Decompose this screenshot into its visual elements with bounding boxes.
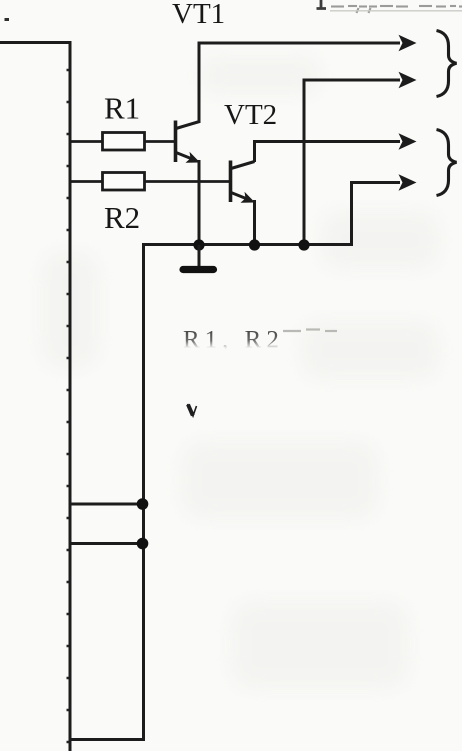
brace: outputs 3-4 xyxy=(437,130,457,196)
wire: VT2 emitter drop xyxy=(253,200,256,246)
brace: outputs 1-2 xyxy=(437,31,457,97)
junction node 3 xyxy=(298,239,309,250)
svg-text:VT2: VT2 xyxy=(224,99,277,131)
arrowhead: output 1 xyxy=(399,35,417,51)
wire: R1 left lead xyxy=(70,140,103,143)
wire: R1 to VT1 base xyxy=(145,140,177,143)
svg-text:R2: R2 xyxy=(104,200,140,235)
wire: VT2 collector riser xyxy=(253,140,256,162)
wire: output 4 riser xyxy=(350,181,353,246)
wire: VT1 collector riser xyxy=(198,42,201,123)
ground bar xyxy=(183,266,214,273)
junction node 1 xyxy=(193,239,204,250)
faded note "R1, R2" xyxy=(178,327,288,358)
wire: output 3 xyxy=(253,140,400,143)
wire: VT1 emitter drop xyxy=(198,160,201,246)
transistor VT1 xyxy=(176,121,201,163)
cropped caption fragment (top-right, faded) xyxy=(317,0,462,13)
wire: emitter bus xyxy=(144,243,354,246)
junction node 5 xyxy=(137,538,149,550)
wire: lower link 1 xyxy=(70,503,143,506)
faded note fragment "V" xyxy=(188,404,197,416)
transistor VT2 xyxy=(231,161,256,203)
arrowhead: output 2 xyxy=(399,72,417,88)
wire: second vertical (to lower stage) xyxy=(142,243,145,741)
junction node 4 xyxy=(137,498,149,510)
arrowhead: output 3 xyxy=(399,133,417,149)
junction node 2 xyxy=(249,239,260,250)
wire: output 2 xyxy=(303,79,401,82)
wire: lower link 2 xyxy=(70,542,143,545)
arrowhead: output 4 xyxy=(399,174,417,190)
wire: output 1 xyxy=(198,42,401,45)
wire: R2 left lead xyxy=(70,180,103,183)
text fragment dot (top-left) xyxy=(5,18,10,21)
resistor R2 xyxy=(103,173,145,191)
wire: R2 to VT2 base xyxy=(145,180,233,183)
svg-text:R1: R1 xyxy=(104,91,140,126)
wire: left vertical bus xyxy=(69,41,72,751)
resistor R1 xyxy=(103,133,145,151)
wire: top-left horizontal xyxy=(0,41,71,44)
ground stub xyxy=(198,245,201,267)
svg-text:VT1: VT1 xyxy=(172,0,225,30)
wire: output 2 riser xyxy=(303,79,306,247)
wire: output 4 xyxy=(350,181,400,184)
wire: bottom horizontal xyxy=(70,738,145,741)
